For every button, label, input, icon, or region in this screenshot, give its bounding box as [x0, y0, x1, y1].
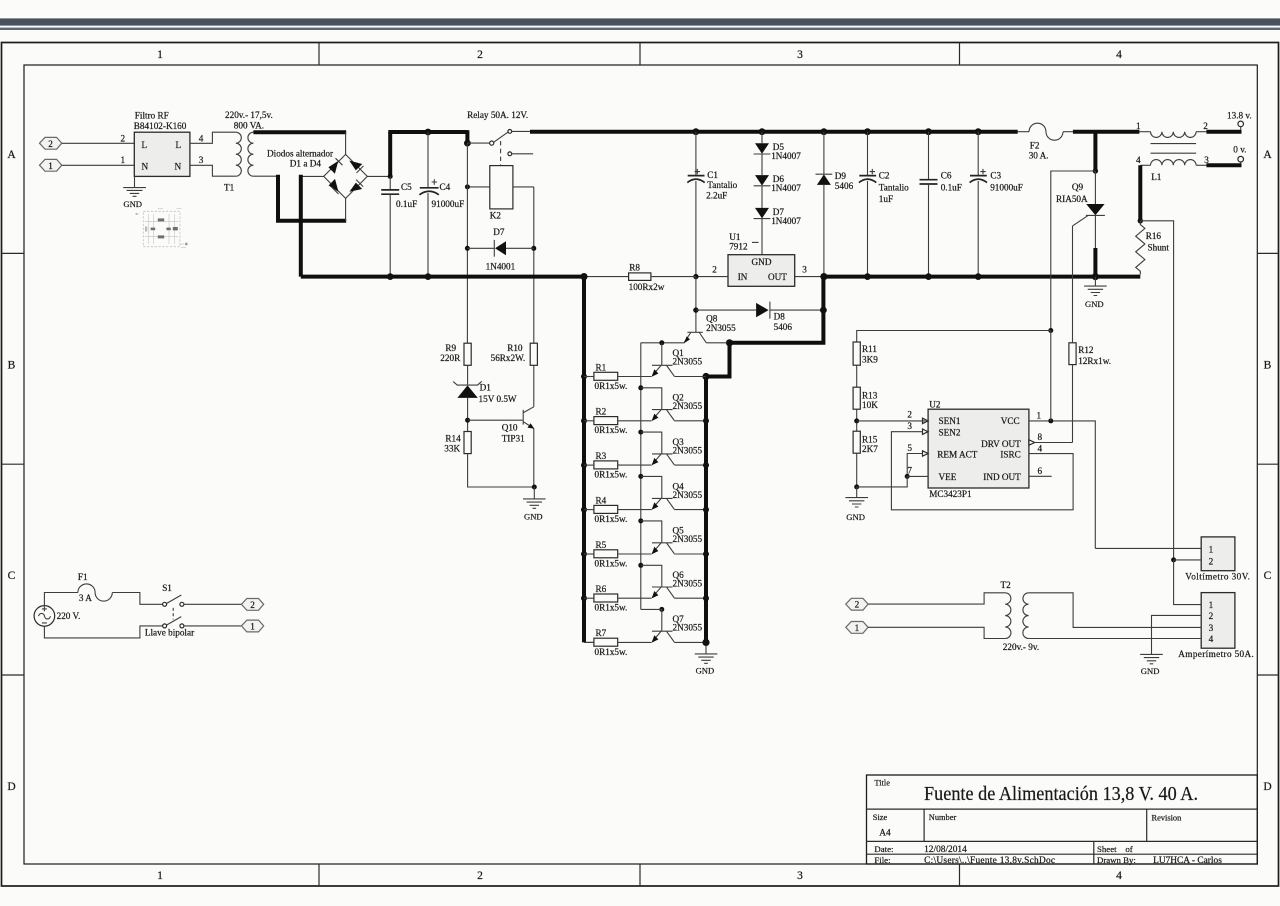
svg-text:C4: C4: [440, 182, 451, 192]
regulator U1 7912 box: [728, 255, 795, 287]
svg-text:Voltímetro 30V.: Voltímetro 30V.: [1185, 571, 1250, 581]
junction rail C3: [975, 128, 982, 135]
thick Q9 cathode to bus: [1093, 248, 1097, 277]
junction C1/R8/Q8 node: [693, 274, 698, 279]
wire voltmeter pin1: [1095, 547, 1201, 549]
svg-text:GND: GND: [1141, 666, 1160, 676]
zone tick left C|D: [2, 674, 25, 676]
svg-text:2: 2: [855, 600, 860, 610]
wire R15 to VEE node: [856, 453, 858, 487]
svg-text:3K9: 3K9: [862, 355, 878, 365]
svg-text:2: 2: [1209, 556, 1214, 566]
junction pin5/pin7: [905, 474, 910, 479]
bridge diode D4 (bottom-right edge): [349, 180, 363, 192]
svg-text:0 v.: 0 v.: [1233, 145, 1246, 155]
zone tick bottom 1|2: [318, 864, 320, 886]
input pin arrow REM ACT: [923, 451, 929, 456]
svg-text:T2: T2: [1001, 580, 1012, 590]
svg-text:0R1x5w.: 0R1x5w.: [595, 470, 628, 480]
zone tick top 3|4: [959, 43, 961, 66]
zone tick left B|C: [2, 463, 25, 465]
svg-text:R12: R12: [1078, 345, 1094, 355]
bridge rectifier D1-D4 diamond: [324, 154, 368, 198]
wire R11-R13: [856, 365, 858, 387]
zone tick right C|D: [1257, 674, 1278, 676]
capacitor C4 (electrolytic): [419, 132, 438, 277]
input pin arrow SEN1: [923, 418, 929, 423]
wire fuse to switch pole1: [112, 593, 162, 605]
svg-text:1: 1: [250, 622, 255, 632]
svg-text:B: B: [8, 360, 16, 372]
svg-text:4: 4: [1116, 49, 1122, 61]
thick tee to Q9: [1093, 130, 1097, 171]
fuse F1: [78, 584, 112, 601]
plus sign C2: [870, 169, 875, 174]
wire voltmeter pin2: [1174, 559, 1202, 561]
svg-text:3: 3: [907, 421, 912, 431]
GND under Q10: [523, 487, 546, 508]
svg-text:U2: U2: [929, 400, 941, 410]
resistor R5: [584, 550, 652, 558]
svg-text:220R: 220R: [440, 353, 461, 363]
svg-text:F1: F1: [78, 572, 88, 582]
svg-text:2N3055: 2N3055: [706, 323, 736, 333]
svg-text:N: N: [175, 162, 182, 172]
base bus vertical: [640, 343, 642, 610]
relay coil K2 box: [490, 166, 513, 209]
svg-text:1: 1: [157, 870, 163, 882]
title block line under size row: [867, 840, 1258, 842]
input pin arrow SEN2: [923, 429, 929, 434]
connector port 2 (mains out): [241, 599, 263, 611]
resistor R11: [853, 342, 860, 365]
svg-text:SEN2: SEN2: [939, 428, 961, 438]
diode D7 (series): [754, 186, 771, 219]
junction Q7 collector: [703, 639, 709, 645]
GND under transistor bank: [695, 642, 718, 663]
top rail F2 to L1 (thick): [1073, 130, 1140, 134]
fuse F2: [1018, 123, 1073, 140]
junction Q3 collector: [703, 462, 709, 468]
svg-text:4: 4: [1209, 634, 1214, 644]
junction top rail C4: [425, 129, 432, 136]
svg-text:R5: R5: [596, 540, 607, 550]
svg-text:GND: GND: [696, 665, 715, 675]
wire source top to fuse F1: [44, 593, 78, 606]
zone tick top 1|2: [318, 43, 320, 66]
svg-text:13.8 v.: 13.8 v.: [1227, 110, 1252, 120]
plus sign C3: [980, 169, 985, 174]
svg-text:L: L: [176, 140, 182, 150]
wire bridge right corner: [367, 175, 390, 177]
wire Q10 base: [468, 419, 523, 421]
wire T2 secondary top to ammeter pin3: [1029, 593, 1202, 628]
svg-text:R14: R14: [445, 433, 461, 443]
zone letters right: [1263, 149, 1272, 793]
output pin arrow DRV OUT: [1029, 440, 1035, 445]
svg-text:IND OUT: IND OUT: [983, 472, 1021, 482]
junction bus C2: [864, 273, 871, 280]
svg-text:K2: K2: [490, 211, 502, 221]
inductor L1 winding 1-2: [1139, 132, 1206, 138]
svg-text:B: B: [1264, 360, 1272, 372]
zone letters left: [7, 149, 16, 793]
svg-text:1: 1: [1037, 411, 1042, 421]
resistor R10: [530, 343, 537, 365]
L1 pin4 drop (thick): [1138, 165, 1142, 221]
svg-text:Filtro RF: Filtro RF: [135, 110, 169, 120]
resistor R4: [584, 505, 652, 513]
svg-text:Drawn By:: Drawn By:: [1097, 855, 1136, 865]
svg-text:REM ACT: REM ACT: [937, 449, 977, 459]
svg-text:R8: R8: [629, 262, 640, 272]
base tap Q6: [638, 563, 662, 587]
svg-text:7: 7: [907, 466, 912, 476]
wire bridge left corner to negative bus: [301, 175, 324, 177]
junction rail C6: [925, 128, 932, 135]
title block divider number/revision: [1146, 809, 1148, 841]
svg-text:C: C: [8, 570, 16, 582]
wire filter pin4 to T1: [190, 132, 236, 143]
svg-text:T1: T1: [224, 182, 235, 192]
svg-text:D: D: [7, 781, 15, 793]
resistor R9: [464, 343, 471, 365]
svg-text:2: 2: [250, 600, 255, 610]
svg-text:2N3055: 2N3055: [673, 534, 703, 544]
svg-text:3: 3: [802, 265, 807, 275]
transistor Q3 2N3055: [652, 454, 706, 465]
junction R4: [581, 507, 587, 513]
junction K2 left: [465, 184, 470, 189]
vertical raw+ feeder (relay to R9): [466, 143, 468, 343]
wire U1 pin3: [795, 276, 824, 278]
junction VCC column: [1048, 418, 1053, 423]
relay actuation dashed link: [500, 141, 502, 166]
vertical K2 right to R10: [533, 187, 535, 343]
wire port1 to filter pin1: [62, 164, 135, 166]
top positive rail (bridge to relay): [388, 130, 467, 134]
junction bus C6: [925, 273, 932, 280]
svg-text:56Rx2W.: 56Rx2W.: [491, 353, 526, 363]
relay common contact wire: [467, 142, 489, 144]
svg-text:30 A.: 30 A.: [1029, 150, 1049, 160]
svg-text:Amperímetro 50A.: Amperímetro 50A.: [1178, 649, 1254, 659]
svg-text:15V 0.5W: 15V 0.5W: [479, 394, 517, 404]
transistor Q7 2N3055: [652, 631, 706, 642]
svg-text:2N3055: 2N3055: [673, 445, 703, 455]
svg-text:C: C: [1264, 570, 1272, 582]
thick negative drop: [299, 175, 303, 277]
svg-text:220 V.: 220 V.: [57, 611, 81, 621]
connector port 2 (AC input): [40, 137, 62, 149]
svg-text:D1 a D4: D1 a D4: [290, 158, 322, 168]
capacitor C2 (electrolytic tantalio): [859, 132, 876, 277]
svg-text:0.1uF: 0.1uF: [396, 199, 417, 209]
svg-text:B84102-K160: B84102-K160: [134, 121, 187, 131]
svg-text:Date:: Date:: [874, 844, 893, 854]
svg-text:VEE: VEE: [939, 472, 957, 482]
wire REM ACT tie: [907, 454, 922, 477]
bridge diode D2 (top-right edge): [349, 161, 363, 173]
svg-text:Llave bipolar: Llave bipolar: [145, 628, 194, 638]
svg-text:Sheet of: Sheet of: [1097, 844, 1133, 854]
svg-text:S1: S1: [162, 583, 172, 593]
svg-text:A: A: [7, 149, 16, 161]
svg-text:2.2uF: 2.2uF: [706, 190, 727, 200]
diode D6: [754, 154, 771, 186]
wire T1 secondary bottom (thick L): [253, 175, 278, 177]
junction VEE/GND: [854, 484, 859, 489]
svg-text:2N3055: 2N3055: [673, 578, 703, 588]
wire bridge top corner stub: [345, 132, 347, 154]
svg-text:DRV OUT: DRV OUT: [981, 439, 1021, 449]
transistor Q6 2N3055: [652, 587, 706, 598]
svg-text:2N3055: 2N3055: [673, 490, 703, 500]
wire bridge bottom corner stub: [345, 198, 347, 220]
svg-text:C:\Users\..\Fuente 13,8v.SchDo: C:\Users\..\Fuente 13,8v.SchDoc: [924, 856, 1055, 866]
svg-text:R4: R4: [596, 495, 607, 505]
junction voltmeter pin2: [1171, 557, 1176, 562]
svg-text:VCC: VCC: [1001, 416, 1020, 426]
title block line under title row: [867, 808, 1258, 810]
junction rail D5: [759, 128, 766, 135]
connector port 2 (T2): [846, 598, 868, 610]
connector port 1 (T2): [846, 622, 868, 634]
svg-text:D: D: [1263, 781, 1271, 793]
svg-text:C2: C2: [879, 170, 890, 180]
wire VCC pin1: [1029, 421, 1095, 549]
ammeter connector box: [1201, 593, 1235, 649]
svg-text:D8: D8: [774, 312, 786, 322]
0V sense wire to meters: [1140, 221, 1173, 560]
relay feed junction: [464, 130, 471, 146]
junction R5: [581, 551, 587, 557]
wire SEN2 loop to ISRC: [891, 432, 1073, 510]
svg-text:2: 2: [477, 870, 483, 882]
base tap Q5: [638, 518, 662, 542]
svg-text:MC3423P1: MC3423P1: [929, 489, 972, 499]
junction Q6 collector: [703, 595, 709, 601]
svg-text:1: 1: [1209, 600, 1214, 610]
junction R6: [581, 595, 587, 601]
junction Q1 collector: [702, 373, 709, 380]
svg-text:GND: GND: [846, 512, 865, 522]
svg-text:1: 1: [48, 161, 53, 171]
resistor R6: [584, 594, 652, 602]
svg-text:2N3055: 2N3055: [673, 401, 703, 411]
wire port2 to T2 primary top: [868, 593, 1005, 604]
plus sign C4: [432, 179, 437, 184]
resistor R12: [1069, 343, 1076, 443]
svg-text:Q10: Q10: [502, 422, 518, 432]
svg-text:1N4001: 1N4001: [486, 261, 516, 271]
svg-text:91000uF: 91000uF: [990, 183, 1023, 193]
zener diode D1 15V: [453, 381, 482, 431]
wire filter pin3 to T1: [190, 165, 236, 176]
svg-text:GND: GND: [1085, 299, 1104, 309]
wire D7 to U1 GND pin: [761, 219, 763, 255]
junction collector bus bottom: [702, 639, 709, 646]
resistor R13: [853, 387, 860, 409]
svg-text:2: 2: [907, 410, 912, 420]
zone labels bottom: [157, 870, 1122, 882]
svg-text:91000uF: 91000uF: [432, 199, 465, 209]
transistor Q10 TIP31: [523, 365, 534, 487]
junction bus pin3/staircase: [820, 273, 827, 280]
svg-text:U1: U1: [729, 232, 741, 242]
wire port1 to T2 primary bottom: [868, 627, 1005, 638]
svg-text:GND: GND: [123, 199, 142, 209]
junction SEN1: [854, 418, 859, 423]
svg-text:Shunt: Shunt: [1148, 242, 1170, 252]
supervisor U2 MC3423P1 box: [928, 409, 1029, 488]
svg-text:800 VA.: 800 VA.: [234, 121, 264, 131]
connector port 1 (mains out): [241, 620, 263, 632]
svg-text:A: A: [1263, 149, 1272, 161]
svg-text:Fuente de Alimentación 13,8 V.: Fuente de Alimentación 13,8 V. 40 A.: [924, 784, 1198, 805]
base tap Q7: [641, 607, 665, 631]
plus sign C1: [695, 169, 700, 174]
wire ammeter pin2 to gnd: [1152, 615, 1202, 654]
thyristor Q9 RIA50A: [1073, 171, 1105, 343]
title block line under date row: [867, 853, 1258, 855]
svg-text:0.1uF: 0.1uF: [941, 183, 962, 193]
wire T2 secondary bottom to ammeter pin4: [1029, 637, 1202, 639]
svg-text:7912: 7912: [729, 242, 748, 252]
base tap Q3: [638, 430, 662, 454]
zone tick bottom 3|4: [959, 864, 961, 886]
svg-text:3: 3: [1209, 623, 1214, 633]
svg-text:2N3055: 2N3055: [673, 623, 703, 633]
diode D9: [816, 132, 833, 277]
junction R3: [581, 462, 587, 468]
svg-text:220v.- 9v.: 220v.- 9v.: [1003, 642, 1039, 652]
capacitor C5: [381, 176, 399, 276]
svg-text:Revision: Revision: [1152, 814, 1183, 823]
svg-text:5406: 5406: [774, 322, 793, 332]
diode D8 5406: [696, 302, 823, 319]
switch link dashed: [172, 608, 174, 620]
terminal 0v: [1238, 156, 1244, 163]
svg-text:6: 6: [1038, 466, 1043, 476]
resistor R3: [584, 461, 652, 469]
output 0v wire (thick): [1206, 163, 1241, 167]
svg-text:0R1x5w.: 0R1x5w.: [595, 603, 628, 613]
svg-text:SEN1: SEN1: [939, 416, 961, 426]
transistor Q1 2N3055: [652, 365, 706, 376]
svg-text:2N3055: 2N3055: [673, 357, 703, 367]
thick staircase: node to Q8 collector level: [730, 277, 824, 343]
resistor R7: [584, 638, 652, 646]
wire 0v sense to ammeter pin1: [1174, 560, 1202, 605]
svg-text:0R1x5w.: 0R1x5w.: [595, 425, 628, 435]
GND under R15: [845, 487, 868, 507]
wire port2 to filter pin2: [62, 142, 135, 144]
transformer T2 primary winding: [1005, 593, 1011, 639]
svg-text:D7: D7: [493, 227, 505, 237]
zone labels top: [157, 49, 1122, 61]
svg-text:1: 1: [1209, 545, 1214, 555]
minus sign U1: [752, 241, 759, 243]
svg-text:2: 2: [48, 139, 53, 149]
AC source 220V: [34, 606, 55, 627]
junction Q8 collector: [726, 339, 733, 346]
junction R16 top: [1138, 218, 1143, 223]
svg-text:1: 1: [855, 623, 860, 633]
svg-text:1uF: 1uF: [879, 194, 893, 204]
junction R1: [581, 374, 587, 380]
resistor R8: [584, 273, 696, 281]
svg-text:C3: C3: [990, 170, 1001, 180]
transistor Q4 2N3055: [652, 498, 706, 509]
zone tick right A|B: [1257, 252, 1278, 254]
L1 core lines: [1151, 144, 1197, 154]
junction D7 right: [531, 246, 536, 251]
junction D7 left: [465, 246, 470, 251]
svg-text:RIA50A: RIA50A: [1056, 194, 1088, 204]
svg-text:1: 1: [121, 155, 126, 165]
wire R14 to ground rail: [468, 454, 535, 487]
inductor L1 winding 4-3: [1140, 160, 1206, 166]
wire K2 right pin: [513, 186, 534, 188]
ground symbol of filter: [123, 176, 146, 196]
svg-text:C1: C1: [707, 170, 718, 180]
svg-text:D1: D1: [480, 383, 492, 393]
transformer T2 secondary winding: [1023, 593, 1029, 639]
svg-text:5: 5: [907, 443, 912, 453]
wire R13-R15: [856, 409, 858, 431]
top positive rail (relay to F2): [530, 130, 1018, 134]
title block divider date/sheet: [1093, 841, 1095, 864]
junction bus/R8 corner: [580, 273, 587, 280]
svg-text:R11: R11: [862, 344, 877, 354]
junction R2: [581, 418, 587, 424]
title block divider size/number: [923, 809, 925, 841]
svg-text:0R1x5w.: 0R1x5w.: [595, 558, 628, 568]
thick wire down and right to bridge bottom: [278, 175, 346, 221]
RF filter U3 B84102-K160 box: [134, 132, 190, 176]
svg-text:0R1x5w.: 0R1x5w.: [595, 514, 628, 524]
switch S1 pole 2: [163, 617, 242, 628]
diode D7 1N4001 (flyback): [467, 240, 533, 257]
svg-text:220v.- 17,5v.: 220v.- 17,5v.: [225, 110, 273, 120]
capacitor C3 (electrolytic): [970, 132, 987, 277]
svg-text:3 A: 3 A: [79, 593, 92, 603]
transformer T1 primary winding: [236, 132, 242, 176]
junction rail C2: [864, 128, 871, 135]
terminal 13.8v: [1238, 121, 1244, 130]
transistor Q5 2N3055: [652, 543, 706, 554]
svg-text:OUT: OUT: [768, 272, 787, 282]
junction D8 anode: [693, 307, 698, 312]
resistor R2: [584, 417, 652, 425]
top banner bar: [0, 18, 1280, 25]
svg-text:1: 1: [157, 49, 163, 61]
wire source bottom: [44, 626, 162, 638]
svg-text:GND: GND: [524, 512, 543, 522]
svg-text:2: 2: [477, 49, 483, 61]
svg-text:4: 4: [1038, 443, 1043, 453]
svg-text:0R1x5w.: 0R1x5w.: [595, 381, 628, 391]
thick positive riser: [388, 132, 392, 178]
zone tick left A|B: [2, 252, 25, 254]
svg-text:A4: A4: [879, 828, 891, 838]
svg-text:C5: C5: [401, 182, 412, 192]
svg-text:10K: 10K: [862, 400, 878, 410]
svg-text:LU7HCA - Carlos: LU7HCA - Carlos: [1153, 856, 1222, 866]
zone tick right B|C: [1257, 463, 1278, 465]
Q1 base tap: [659, 340, 664, 365]
